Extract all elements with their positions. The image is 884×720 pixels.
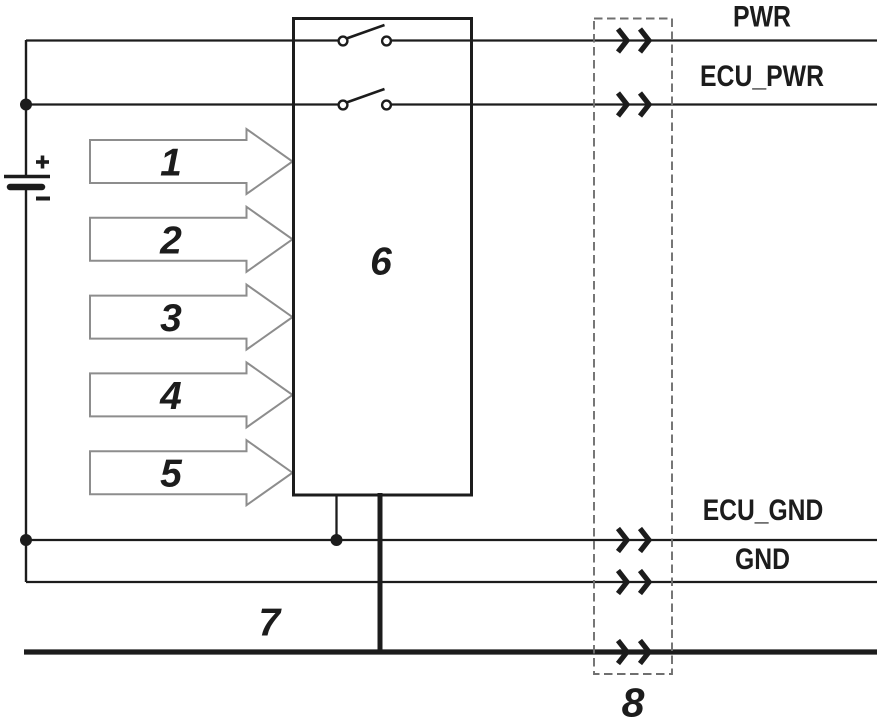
arrow input 3 [90, 285, 293, 350]
arrow input 2 [90, 207, 293, 272]
svg-text:3: 3 [160, 297, 182, 340]
svg-text:ECU_PWR: ECU_PWR [700, 60, 824, 93]
wire ECU_GND [26, 539, 877, 541]
wire GND [26, 581, 877, 583]
connector pin GND [618, 571, 649, 594]
node: junction dot stub / ECU_GND [331, 534, 343, 546]
battery plus sign [36, 160, 49, 164]
connector pin ECU_PWR [618, 93, 649, 116]
svg-text:6: 6 [370, 240, 392, 283]
node: junction dot bus / ECU_GND [20, 534, 32, 546]
control unit block 6 [294, 19, 472, 496]
switch S2 (ECU_PWR) [339, 89, 391, 109]
connector 8 dashed outline [594, 19, 672, 675]
battery negative plate [10, 184, 42, 191]
svg-text:GND: GND [735, 543, 790, 576]
connector pin chassis [618, 641, 649, 664]
svg-text:1: 1 [160, 142, 182, 185]
arrow input 5 [90, 440, 293, 505]
battery B1 [4, 156, 50, 199]
wire ECU_PWR inside block [294, 103, 339, 105]
switch S1 (PWR) [339, 25, 391, 45]
battery minus sign [36, 197, 50, 201]
arrow input 4 [90, 362, 293, 427]
node: junction dot bus / ECU_PWR [20, 99, 32, 111]
svg-text:7: 7 [259, 601, 283, 644]
connector pin ECU_GND [618, 529, 649, 552]
connector pin PWR [618, 29, 649, 52]
svg-text:5: 5 [160, 453, 183, 496]
svg-text:ECU_GND: ECU_GND [703, 494, 824, 527]
wire: left vertical bus from battery top to GND corner [25, 40, 27, 176]
battery positive plate [4, 175, 50, 179]
wire: thick stub block to chassis line [378, 493, 383, 652]
wire: thin stub block to ECU_GND [335, 495, 337, 540]
wire ECU_PWR: bus junction to switch, then to connector and right edge [26, 103, 339, 105]
svg-text:4: 4 [159, 375, 182, 418]
wire PWR inside block [294, 39, 339, 41]
svg-text:PWR: PWR [733, 1, 791, 34]
wire: chassis ground line 7 [24, 649, 877, 654]
arrow input 1 [90, 129, 293, 194]
svg-text:2: 2 [159, 219, 182, 262]
svg-text:8: 8 [622, 680, 645, 720]
wire PWR: battery bus to switch, then to connector and right edge [26, 39, 339, 41]
